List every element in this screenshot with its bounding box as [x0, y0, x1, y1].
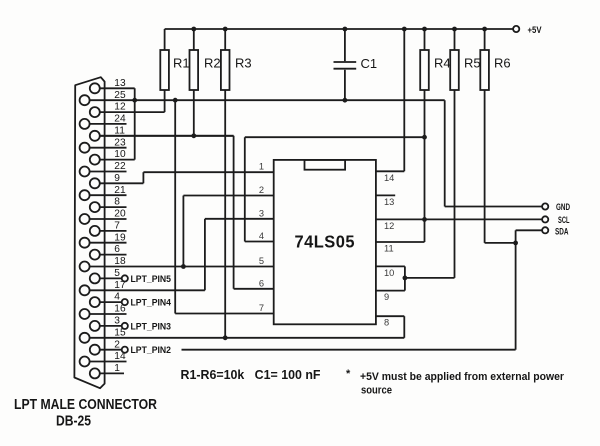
svg-text:R6: R6	[494, 56, 511, 71]
svg-text:10: 10	[384, 268, 394, 278]
svg-text:11: 11	[384, 244, 394, 254]
junction R3 lead on pin15 wire	[223, 335, 228, 340]
DB25 pin 9	[90, 173, 144, 188]
wire R5 to IC pins 9/10 link	[405, 277, 455, 279]
wire R6 to SDA junction	[485, 242, 516, 244]
wire IC pin12 to SCL terminal	[376, 218, 542, 220]
wire to IC pin 1	[143, 171, 273, 173]
DB25 pin 20	[80, 209, 127, 224]
svg-text:13: 13	[384, 197, 394, 207]
svg-text:13: 13	[114, 78, 126, 89]
wire to SDA terminal	[516, 229, 542, 231]
svg-text:+5V: +5V	[528, 25, 542, 35]
svg-text:2: 2	[114, 339, 120, 350]
svg-text:2: 2	[259, 185, 264, 195]
wire GND net: pin25 across to right vertical	[90, 99, 445, 101]
wire IC pin2 vertical	[182, 196, 184, 267]
svg-text:3: 3	[114, 316, 120, 327]
DB25 pin 7	[90, 221, 127, 236]
DB25 pin 16	[80, 304, 127, 319]
wire R4 lead down to IC pin11 level	[424, 90, 426, 242]
svg-text:+5V must be applied from exter: +5V must be applied from external power	[360, 371, 565, 383]
wire pin15 across to IC pin 8 drop	[90, 337, 405, 339]
svg-text:10: 10	[114, 149, 126, 160]
DB25 pin 21	[80, 185, 127, 200]
wire vertical up to IC pin 8	[403, 316, 405, 338]
wire IC pin 10 stub	[376, 265, 405, 267]
svg-text:R2: R2	[204, 56, 221, 71]
svg-text:9: 9	[384, 292, 389, 302]
wire vertical pin17 to IC pin3	[204, 219, 206, 290]
svg-text:GND: GND	[556, 202, 570, 212]
wire vertical down to IC pin 4	[244, 137, 246, 241]
terminal LPT_PIN2	[122, 345, 171, 355]
DB25 pin 3	[90, 316, 122, 331]
svg-text:14: 14	[384, 173, 394, 183]
junction R2 lead on pin11 wire	[191, 133, 196, 138]
svg-text:LPT_PIN2: LPT_PIN2	[131, 345, 172, 355]
wire pin17 toward IC pin 3	[90, 289, 205, 291]
DB25 pin 5	[90, 268, 122, 283]
DB25 pin 14	[80, 351, 127, 366]
svg-text:24: 24	[114, 114, 126, 125]
DB25 pin 10	[90, 149, 135, 164]
junction C1 on GND wire	[343, 98, 348, 103]
DB25 pin 17	[80, 280, 126, 295]
DB25 pin 12	[90, 102, 165, 117]
svg-text:R3: R3	[235, 56, 252, 71]
svg-text:74LS05: 74LS05	[295, 232, 356, 252]
SDA terminal	[542, 227, 548, 233]
DB25 pin 4	[90, 292, 122, 307]
DB25 pin 15	[80, 327, 126, 342]
junction GND branch to IC pin7	[173, 98, 178, 103]
junction R4 on rail	[422, 27, 427, 32]
svg-text:1: 1	[114, 363, 120, 374]
wire to IC pin 4	[245, 241, 274, 243]
wire GND vertical to GND terminal	[444, 100, 446, 206]
wire IC pin 13 stub (unused)	[376, 194, 395, 196]
wire SDA vertical	[515, 243, 517, 350]
capacitor C1	[334, 29, 357, 100]
junction SDA net	[513, 241, 518, 246]
svg-text:7: 7	[259, 303, 264, 313]
svg-text:SDA: SDA	[555, 226, 569, 236]
svg-text:9: 9	[114, 173, 120, 184]
DB25 pin 1	[90, 363, 124, 378]
DB25 pin 8	[90, 197, 127, 212]
junction R3 on rail	[223, 27, 228, 32]
svg-text:LPT_PIN4: LPT_PIN4	[131, 298, 172, 308]
wire IC pin 14 stub	[376, 170, 404, 172]
wire R6 lead down	[484, 90, 486, 243]
svg-text:R4: R4	[434, 56, 451, 71]
terminal LPT_PIN3	[122, 321, 171, 331]
svg-text:7: 7	[114, 221, 120, 232]
svg-text:4: 4	[114, 292, 120, 303]
wire SDA up to terminal row	[515, 230, 517, 243]
resistor R6	[480, 29, 489, 90]
junction R5 on rail	[452, 27, 457, 32]
junction C1 on rail	[343, 27, 348, 32]
svg-text:18: 18	[114, 256, 126, 267]
wire GND branch vertical x=175	[174, 100, 176, 313]
wire vertical joining IC pins 10 and 9	[404, 266, 406, 290]
wire vertical pin9 to IC pin1	[142, 172, 144, 183]
svg-text:R1: R1	[173, 56, 190, 71]
svg-text:6: 6	[259, 278, 264, 288]
svg-text:11: 11	[114, 125, 125, 136]
DB25 pin 19	[80, 232, 127, 247]
junction IC pin2 vertical on pin18 wire	[181, 264, 186, 269]
DB25 pin 2	[90, 339, 122, 354]
wire +5V down to IC pin 14	[403, 29, 405, 171]
resistor R3	[221, 29, 230, 90]
svg-text:5: 5	[259, 256, 264, 266]
wire R3 lead down to pin15 wire	[224, 90, 226, 338]
wire pin11 toward IC pin 6	[100, 135, 234, 137]
wire +5V top rail	[165, 28, 513, 30]
svg-text:20: 20	[114, 209, 126, 220]
svg-text:LPT MALE CONNECTOR: LPT MALE CONNECTOR	[14, 397, 157, 413]
junction R4 lead / SCL wire	[422, 217, 427, 222]
DB25 pin 6	[90, 244, 127, 259]
wire pin2 (SDA net) under IC to right	[182, 349, 516, 351]
svg-text:22: 22	[114, 161, 126, 172]
op-amp U1 74LS05 body	[274, 160, 376, 324]
IC orientation notch	[305, 160, 346, 170]
wire vertical joining pin13/pin25/pin10	[134, 88, 136, 159]
wire to IC pin 2	[183, 195, 273, 197]
svg-text:R5: R5	[464, 56, 481, 71]
svg-text:6: 6	[114, 244, 120, 255]
svg-text:4: 4	[259, 231, 264, 241]
junction R2 on rail	[191, 27, 196, 32]
wire to IC pin 3	[205, 218, 274, 220]
svg-text:12: 12	[114, 102, 126, 113]
wire GND branch to IC pin 7	[175, 313, 274, 315]
DB25 pin 25	[80, 90, 126, 105]
SCL terminal	[542, 216, 548, 222]
svg-text:*: *	[346, 368, 351, 380]
wire pin18 to IC pin 5	[90, 266, 274, 268]
terminal LPT_PIN4	[122, 298, 171, 308]
wire IC pin 9 stub	[376, 290, 405, 292]
wire to IC pin 6	[234, 288, 274, 290]
svg-text:5: 5	[114, 268, 120, 279]
resistor R4	[420, 29, 429, 90]
junction pins 9/10 to R5	[403, 276, 408, 281]
DB25 pin 13	[90, 78, 135, 93]
DB25 pin 23	[80, 137, 127, 152]
DB25 pin 18	[80, 256, 126, 271]
wire IC pin 8 stub	[376, 315, 404, 317]
svg-text:LPT_PIN3: LPT_PIN3	[131, 321, 172, 331]
wire R2 lead to pin11 wire	[193, 90, 195, 136]
svg-text:source: source	[361, 385, 392, 397]
svg-text:8: 8	[114, 197, 120, 208]
DB25 pin 24	[80, 114, 127, 129]
DB25 pin 22	[80, 161, 127, 176]
svg-text:C1: C1	[361, 56, 378, 71]
junction +5V drop on rail	[402, 27, 407, 32]
svg-text:1: 1	[259, 162, 264, 172]
svg-text:SCL: SCL	[558, 215, 570, 225]
svg-text:23: 23	[114, 137, 126, 148]
svg-text:8: 8	[384, 318, 389, 328]
svg-text:3: 3	[259, 208, 264, 218]
wire R5 lead down	[454, 90, 456, 278]
DB25 pin 11	[90, 125, 234, 140]
resistor R5	[450, 29, 459, 90]
DB-25 connector body	[74, 77, 104, 388]
wire upper SCL-net horizontal to R4 lead	[245, 136, 425, 138]
terminal LPT_PIN5	[122, 274, 171, 284]
resistor R2	[190, 29, 199, 90]
resistor R1	[160, 29, 169, 90]
GND terminal	[542, 203, 548, 209]
junction pin25/pin13 vertical	[132, 98, 137, 103]
svg-text:25: 25	[114, 90, 126, 101]
wire to GND terminal	[445, 206, 542, 208]
svg-text:LPT_PIN5: LPT_PIN5	[131, 274, 172, 284]
svg-text:21: 21	[114, 185, 126, 196]
svg-text:12: 12	[384, 221, 394, 231]
+5V terminal	[513, 26, 519, 32]
wire R1 lead to pin12	[164, 90, 166, 112]
svg-text:DB-25: DB-25	[56, 414, 91, 430]
wire vertical pin11 to IC pin6	[233, 136, 235, 289]
junction R6 on rail	[482, 27, 487, 32]
svg-text:R1-R6=10k C1= 100 nF: R1-R6=10k C1= 100 nF	[181, 368, 321, 382]
junction R4 lead / SCL-in wire	[422, 135, 427, 140]
wire to IC pin 11	[376, 241, 425, 243]
svg-text:19: 19	[114, 232, 126, 243]
